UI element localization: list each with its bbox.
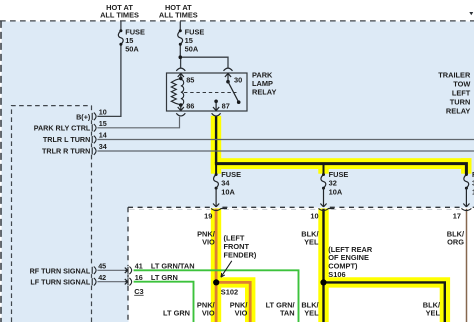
svg-text:S106: S106 (328, 270, 345, 279)
module pin connectors (bar + arc) (92, 113, 96, 286)
svg-text:FENDER): FENDER) (224, 250, 257, 259)
relay box (167, 73, 248, 111)
wire hy-S106 branch highlight (324, 282, 445, 322)
junction box dashed top (128, 206, 474, 208)
wire hy-fuse32 stub highlight (318, 163, 328, 174)
svg-text:87: 87 (222, 102, 230, 111)
splice S102 dot (213, 279, 219, 285)
svg-text:17: 17 (453, 212, 461, 221)
svg-text:10A: 10A (221, 188, 235, 197)
svg-text:TRAILER: TRAILER (438, 70, 471, 79)
splice S106 dot (320, 279, 326, 285)
svg-text:45: 45 (98, 261, 106, 270)
svg-text:VIO: VIO (202, 238, 215, 247)
svg-text:YEL: YEL (426, 309, 441, 318)
wire BLK/YEL core vertical (322, 209, 324, 322)
svg-text:LT GRN: LT GRN (151, 273, 178, 282)
wire fuse34 to connector (215, 188, 217, 206)
svg-text:TRLR R TURN: TRLR R TURN (42, 146, 90, 155)
svg-text:LF TURN SIGNAL: LF TURN SIGNAL (30, 278, 90, 287)
svg-text:S102: S102 (221, 287, 238, 296)
svg-text:LEFT: LEFT (452, 88, 471, 97)
wire core bus (215, 164, 467, 175)
boundary fuse block dashed left (0, 21, 2, 322)
svg-text:PARK RLY CTRL: PARK RLY CTRL (34, 124, 91, 133)
relay coil resistor zigzag (171, 78, 181, 105)
relay coil arcs (181, 79, 184, 105)
svg-text:VIO: VIO (202, 309, 215, 318)
svg-text:30: 30 (234, 76, 242, 85)
relay pin 30 dot (226, 80, 230, 84)
wire hy-19 PNK/VIO vertical highlight (211, 208, 221, 322)
junction dot fuse2 (179, 55, 183, 59)
wire hy-S102 branch highlight (211, 282, 250, 322)
svg-text:10A: 10A (329, 188, 343, 197)
svg-text:C3: C3 (134, 287, 143, 296)
wire LT GRN (16) (134, 282, 194, 322)
wire hy-bus highlight (211, 158, 472, 169)
wire LT GRN/TAN (41) (134, 270, 299, 322)
relay pin 86 dot (179, 103, 183, 107)
svg-text:42: 42 (98, 273, 106, 282)
svg-text:TRLR L TURN: TRLR L TURN (43, 135, 90, 144)
svg-text:VIO: VIO (235, 309, 248, 318)
wire fuse2 to junction (179, 44, 181, 57)
svg-text:YEL: YEL (304, 238, 319, 247)
junction box interior (white) (129, 208, 474, 322)
wire PNK/VIO core S102 branch (216, 282, 250, 322)
junction box pin arrows down (213, 204, 470, 207)
boundary fuse block dashed top (0, 20, 474, 22)
wire junction to relay 30 (180, 57, 228, 67)
svg-text:32: 32 (329, 178, 337, 187)
wire PNK/VIO core vertical (215, 209, 218, 322)
svg-text:RELAY: RELAY (252, 88, 276, 97)
svg-text:50A: 50A (125, 44, 139, 53)
svg-text:TOW: TOW (453, 79, 470, 88)
svg-text:85: 85 (186, 76, 194, 85)
svg-text:41: 41 (135, 261, 143, 270)
svg-text:15: 15 (99, 119, 107, 128)
wire fuse32 to connector (323, 188, 325, 206)
junction box top ghost line (130, 208, 461, 210)
wire 45 RF TURN SIGNAL (97, 269, 125, 271)
svg-text:TURN: TURN (450, 97, 471, 106)
svg-text:YEL: YEL (304, 309, 319, 318)
wire 42 LF TURN SIGNAL (97, 281, 125, 283)
RF/LF arrows into junction box (125, 268, 128, 285)
fuse F1 (118, 31, 123, 45)
wire BLK/YEL core S106 branch (324, 282, 445, 322)
relay pin 85 dot (179, 77, 183, 81)
wire BLK/ORG (466, 209, 468, 322)
svg-text:B(+): B(+) (76, 112, 91, 121)
wire hy-10 BLK/YEL vertical highlight (318, 208, 328, 322)
wire junction to relay 85 (180, 57, 182, 67)
relay pin arrows (178, 73, 231, 110)
wire fuse1 feed from boundary (120, 22, 122, 31)
relay female arcs outside box (176, 68, 232, 116)
wire fuse30 to connector (465, 188, 467, 206)
wire fuse2 feed from boundary (179, 22, 181, 31)
svg-text:16: 16 (135, 273, 143, 282)
svg-text:86: 86 (186, 102, 194, 111)
svg-text:34: 34 (99, 142, 107, 151)
wire core fuse34 stub (215, 164, 217, 175)
svg-text:10: 10 (99, 108, 107, 117)
wire 15 PARK RLY CTRL to relay 86 (97, 117, 179, 128)
svg-text:14: 14 (99, 131, 107, 140)
fuse F2 (178, 31, 183, 45)
cut wire top right (469, 12, 473, 15)
svg-text:34: 34 (221, 178, 230, 187)
svg-text:ALL TIMES: ALL TIMES (100, 11, 139, 20)
wire hy-87 relay output highlight (211, 116, 221, 174)
svg-text:50A: 50A (185, 44, 199, 53)
wire fuse1 to B(+) pin 10 (97, 44, 121, 116)
relay pin 87 dot (214, 100, 218, 104)
svg-text:TAN: TAN (280, 309, 295, 318)
S102 leader arrow (221, 261, 232, 277)
wire core relay87 to bus (215, 116, 217, 163)
fuse F34 (214, 175, 219, 189)
module dashed box (12, 106, 92, 322)
relay internal dashed line (184, 92, 237, 94)
wire 14 TRLR L TURN (97, 139, 474, 141)
svg-text:RF TURN SIGNAL: RF TURN SIGNAL (30, 266, 91, 275)
svg-text:ORG: ORG (447, 238, 464, 247)
svg-text:19: 19 (204, 212, 212, 221)
svg-text:10: 10 (310, 212, 318, 221)
relay switch blade (228, 82, 239, 103)
junction box side pin bars and arcs for 41/16 (128, 267, 132, 286)
junction box dashed left (127, 207, 129, 322)
wire 34 TRLR R TURN (97, 150, 474, 152)
svg-text:LT GRN: LT GRN (163, 309, 190, 318)
svg-text:RELAY: RELAY (446, 106, 470, 115)
fuse F32 (321, 175, 326, 189)
svg-text:LT GRN/TAN: LT GRN/TAN (151, 261, 195, 270)
relay switch end dot (237, 100, 241, 104)
svg-text:ALL TIMES: ALL TIMES (159, 11, 198, 20)
fuse F30 right (464, 175, 469, 189)
wire hy-bus right corner highlight (461, 158, 471, 174)
wire core fuse32 stub (323, 164, 325, 175)
junction box pin female arcs with tails (211, 208, 471, 210)
